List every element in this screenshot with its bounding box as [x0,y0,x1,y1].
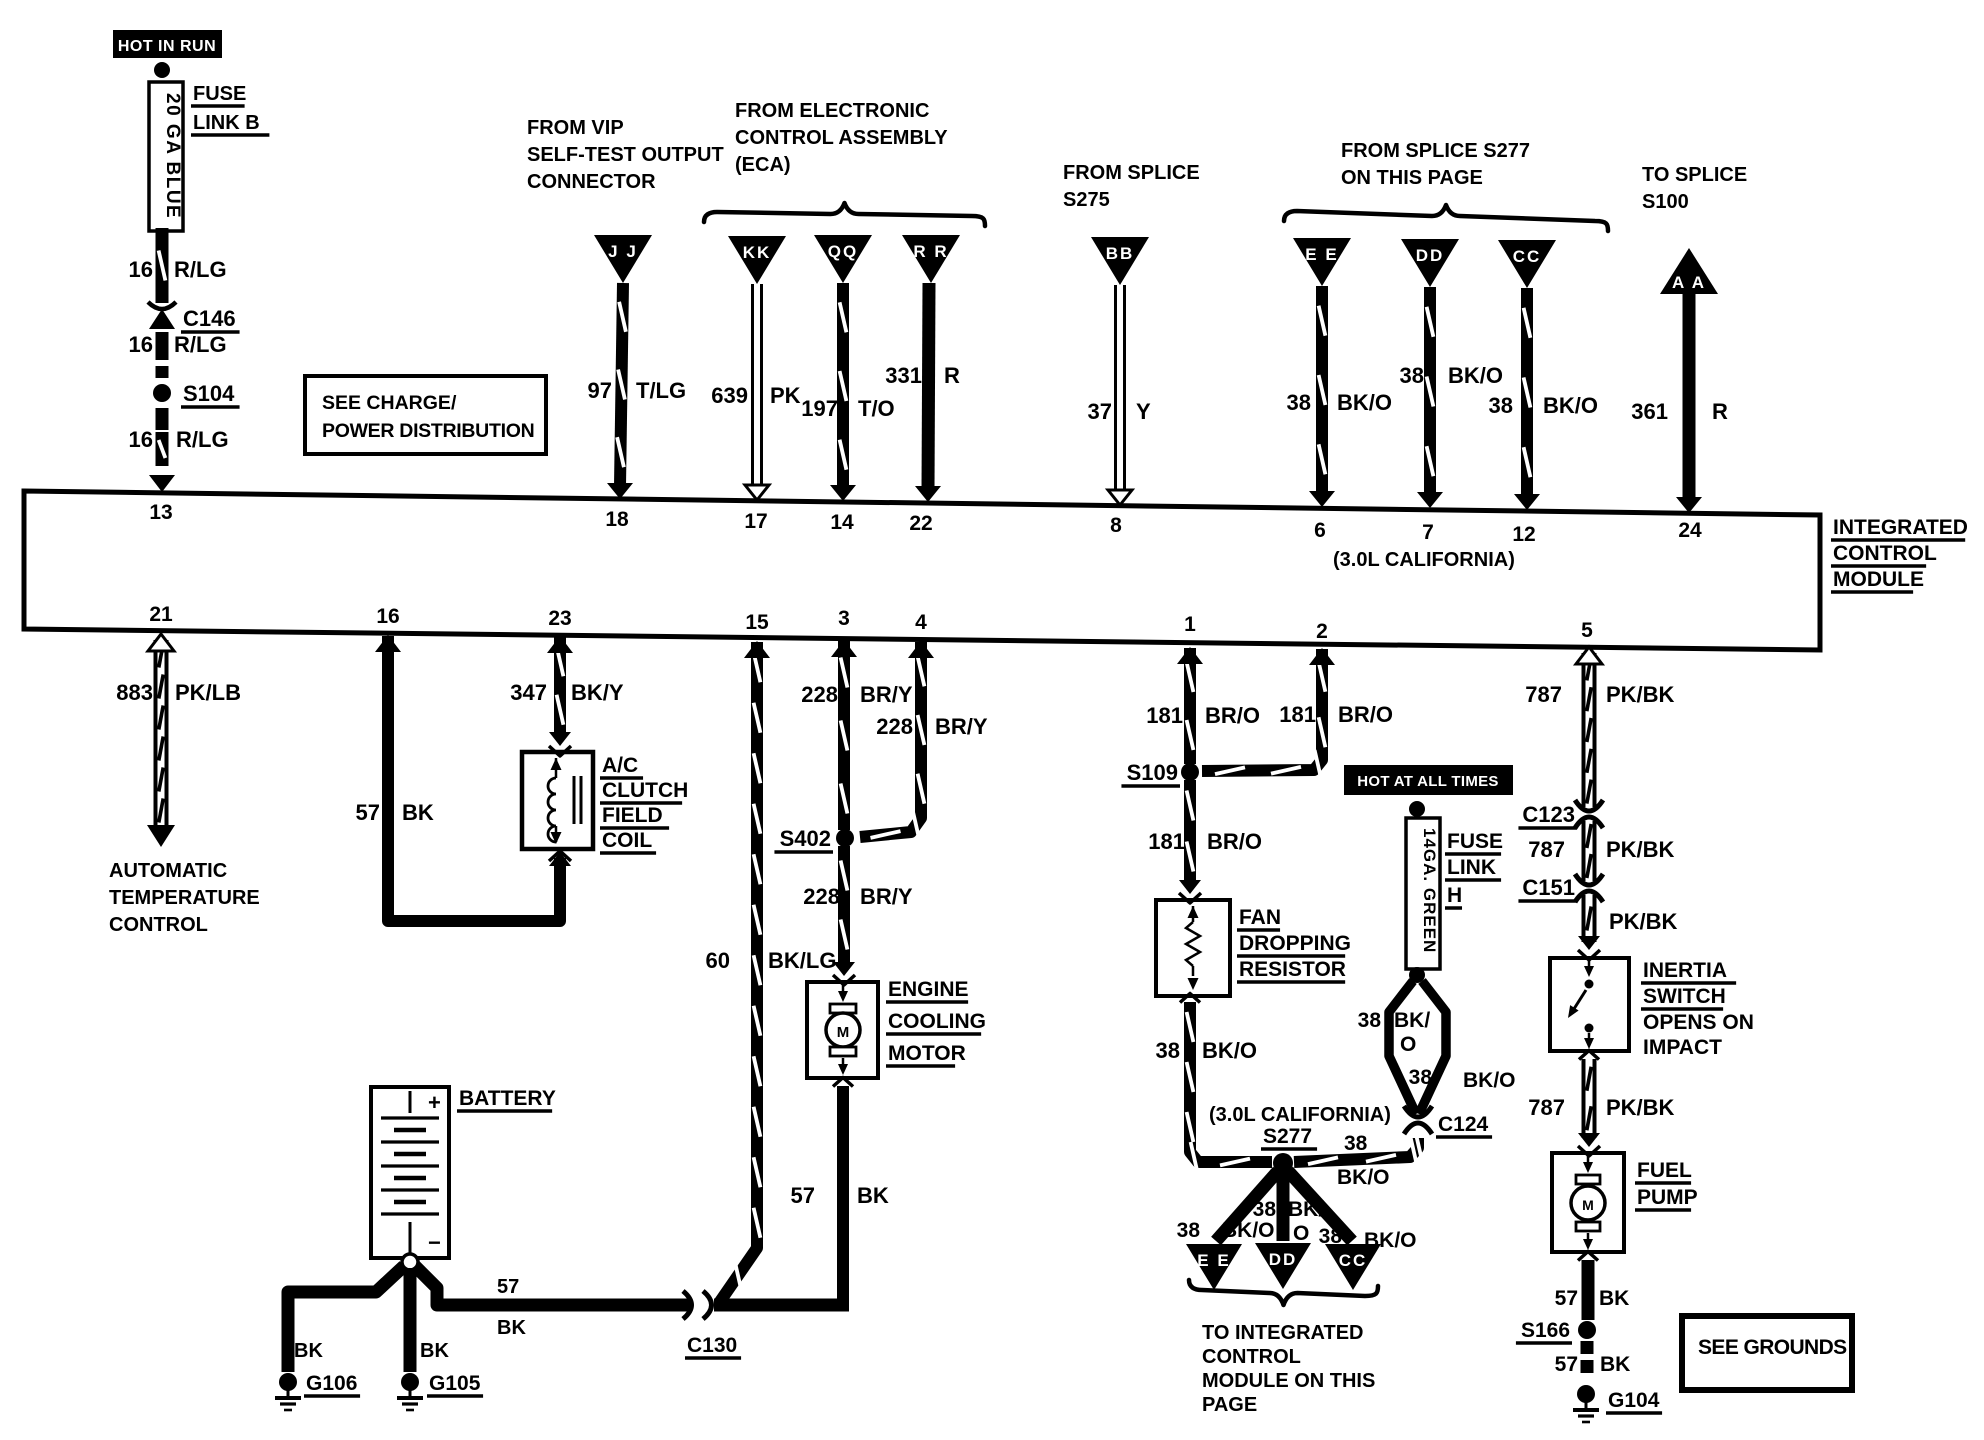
svg-text:16: 16 [129,257,153,282]
svg-text:S104: S104 [183,381,235,406]
connector triangle CC (top) [1498,240,1556,288]
svg-text:POWER DISTRIBUTION: POWER DISTRIBUTION [322,420,534,442]
splice S109 [1181,763,1199,781]
svg-text:S277: S277 [1263,1125,1312,1148]
svg-text:BK/O: BK/O [1543,393,1598,418]
arrow at pin 3 [831,640,857,657]
svg-text:T/LG: T/LG [636,378,686,403]
svg-text:BR/O: BR/O [1205,703,1260,728]
arrow to automatic temperature control [147,825,175,847]
connector triangle DD (top) [1401,239,1459,287]
svg-text:DD: DD [1416,246,1445,265]
svg-text:S100: S100 [1642,191,1689,213]
svg-text:331: 331 [885,363,922,388]
svg-text:PK/BK: PK/BK [1606,837,1675,862]
arrow at pin 17 [745,485,769,500]
svg-text:HOT AT ALL TIMES: HOT AT ALL TIMES [1357,773,1498,790]
splice S277 [1273,1153,1293,1173]
svg-text:FIELD: FIELD [602,804,663,827]
svg-text:787: 787 [1528,1095,1565,1120]
integrated control module box [24,491,1820,650]
svg-text:PAGE: PAGE [1202,1394,1257,1416]
connector triangle BB [1091,237,1149,285]
node: top of fuse link B [154,62,170,78]
svg-text:38: 38 [1253,1198,1277,1221]
svg-text:38: 38 [1156,1038,1180,1063]
svg-text:FROM SPLICE: FROM SPLICE [1063,162,1200,184]
svg-text:57: 57 [356,800,380,825]
svg-text:57: 57 [1555,1287,1578,1310]
arrow at pin 21 (outline) [148,634,174,651]
wire 639 PK from KK to pin 17 (white) [751,284,763,488]
node at fuse link H top [1409,801,1425,817]
svg-text:R/LG: R/LG [174,257,227,282]
svg-text:13: 13 [149,501,172,524]
wire 57 BK from motor to battery junction [833,1078,853,1087]
svg-text:QQ: QQ [828,242,858,261]
node at fuse link H bottom [1409,967,1425,983]
svg-text:PK/LB: PK/LB [175,680,241,705]
box SEE GROUNDS [1682,1316,1852,1390]
svg-text:PK: PK [770,383,801,408]
wire 38 BK/O from DD to pin 7 [1424,287,1436,496]
svg-text:SEE CHARGE/: SEE CHARGE/ [322,392,457,414]
ground G105 [401,1373,419,1391]
inertia switch box [1550,958,1629,1051]
svg-text:TO SPLICE: TO SPLICE [1642,164,1747,186]
svg-text:ENGINE: ENGINE [888,978,969,1001]
wire PK/BK from C151 to inertia switch [1582,895,1597,942]
brace over S277 connectors [1284,205,1608,231]
svg-text:C151: C151 [1522,875,1575,900]
svg-text:BK/O: BK/O [1463,1069,1516,1092]
svg-text:RESISTOR: RESISTOR [1239,958,1346,981]
wire 38 BK/O from resistor to splice S277 [1180,994,1200,1003]
wire 347 BK/Y from pin 23 to A/C clutch field coil [554,637,566,734]
connector triangle DD (bottom) [1255,1243,1311,1289]
svg-text:BK/O: BK/O [1448,363,1503,388]
wire 60 BK/LG from pin 15 to C130 [719,642,757,1303]
wire 57 BK from S166 to G104 (dashed) [1581,1341,1594,1354]
svg-text:S275: S275 [1063,189,1110,211]
arrow into resistor box [1179,880,1201,894]
svg-text:24: 24 [1678,519,1702,542]
arrow into inertia switch [1578,936,1600,950]
svg-text:BATTERY: BATTERY [459,1087,556,1110]
svg-text:BK: BK [420,1340,449,1362]
splice S166 [1578,1321,1596,1339]
arrow at pin 16 [375,635,401,652]
svg-text:R: R [1712,399,1728,424]
arrow at pin 2 [1309,648,1335,665]
svg-text:BB: BB [1106,244,1135,263]
svg-text:ON THIS PAGE: ON THIS PAGE [1341,167,1483,189]
arrow at pin 14 [830,485,856,501]
connector triangle AA (to splice S100) [1660,248,1718,294]
svg-text:E E: E E [1197,1251,1230,1270]
svg-text:BK: BK [497,1317,526,1339]
svg-text:7: 7 [1422,521,1434,544]
svg-text:37: 37 [1088,399,1112,424]
svg-text:C124: C124 [1438,1113,1489,1136]
battery cells symbol [409,1091,412,1113]
wire 57 BK from fuel pump to S166 [1578,1252,1598,1261]
coil inner symbol [551,758,562,770]
svg-text:A A: A A [1672,273,1706,292]
arrow into motor box [833,962,855,976]
connector C123 [1575,800,1603,811]
svg-text:C146: C146 [183,306,236,331]
wire 16 R/LG (fuse to C146) [156,228,169,303]
arrow at pin 8 [1108,490,1132,505]
fuel pump box [1552,1153,1624,1252]
connector C151 [1575,874,1603,885]
wire 16 R/LG (S104 to module pin 13) [156,408,169,430]
svg-text:Y: Y [1136,399,1151,424]
wire 38 BK/O from CC to pin 12 [1521,288,1533,497]
svg-text:21: 21 [149,603,173,626]
svg-text:FUEL: FUEL [1637,1159,1692,1182]
svg-text:S166: S166 [1521,1319,1570,1342]
svg-text:38: 38 [1409,1066,1433,1089]
svg-text:15: 15 [745,611,769,634]
svg-text:DROPPING: DROPPING [1239,932,1351,955]
svg-text:16: 16 [129,332,153,357]
svg-text:(3.0L CALIFORNIA): (3.0L CALIFORNIA) [1209,1104,1391,1126]
engine cooling motor box [807,982,878,1078]
wire 16 R/LG (C146 to S104) [156,332,169,360]
svg-text:O: O [1400,1033,1416,1056]
svg-text:R R: R R [913,242,948,261]
wire 228 BR/Y from pin 4 to splice S402 [860,642,921,837]
svg-text:6: 6 [1314,519,1326,542]
arrow into pin 13 [149,475,175,492]
svg-text:C123: C123 [1522,802,1575,827]
svg-text:38: 38 [1358,1009,1382,1032]
svg-text:38: 38 [1177,1219,1201,1242]
wire 331 R from RR to pin 22 [928,283,929,490]
wire 97 T/LG from JJ to pin 18 [620,283,623,486]
svg-text:57: 57 [791,1183,815,1208]
svg-text:FAN: FAN [1239,906,1281,929]
svg-text:M: M [837,1024,850,1041]
connector triangle CC (bottom) [1325,1244,1381,1290]
svg-text:O: O [1293,1222,1309,1245]
svg-text:C130: C130 [687,1334,737,1357]
ground G104 [1577,1385,1595,1403]
svg-text:347: 347 [510,680,547,705]
svg-text:FUSE: FUSE [1447,830,1503,853]
connector triangle JJ [594,235,652,283]
connector triangle EE (top) [1293,238,1351,286]
svg-text:A/C: A/C [602,754,638,777]
svg-text:CLUTCH: CLUTCH [602,779,688,802]
arrow at pin 4 [908,641,934,658]
wire 181 BR/O from pin 2 to S109 [1202,649,1322,771]
svg-text:IMPACT: IMPACT [1643,1036,1722,1059]
svg-text:5: 5 [1581,619,1593,642]
svg-text:COOLING: COOLING [888,1010,986,1033]
splice S104 [153,384,171,402]
svg-text:60: 60 [706,948,730,973]
svg-text:INTEGRATED: INTEGRATED [1833,516,1968,539]
fuel pump motor symbol [1587,1155,1590,1166]
arrow at pin 24 [1676,497,1702,513]
svg-text:18: 18 [605,508,629,531]
svg-text:181: 181 [1279,702,1316,727]
connector C146 [148,302,176,309]
connector triangle RR [902,235,960,283]
svg-text:BK/LG: BK/LG [768,948,836,973]
svg-text:38: 38 [1489,393,1513,418]
svg-text:OPENS ON: OPENS ON [1643,1011,1754,1034]
svg-text:FUSE: FUSE [193,83,246,105]
wire 38 BK/O from S277 to C124 [1294,1138,1418,1162]
svg-text:INERTIA: INERTIA [1643,959,1727,982]
motor inner symbol [842,984,845,995]
svg-text:3: 3 [838,607,850,630]
svg-text:38: 38 [1400,363,1424,388]
wire 37 Y from BB to pin 8 (white) [1114,285,1126,493]
svg-text:361: 361 [1631,399,1668,424]
svg-text:BK: BK [1600,1353,1630,1376]
svg-text:FROM ELECTRONIC: FROM ELECTRONIC [735,100,929,122]
switch inner symbol [1588,960,1591,968]
arrow at pin 12 [1514,494,1540,510]
svg-text:17: 17 [744,510,767,533]
arrow at pin 6 [1309,491,1335,507]
power label HOT IN RUN [113,30,222,58]
svg-text:BK/O: BK/O [1202,1038,1257,1063]
connector triangle KK [728,236,786,284]
wire 197 T/O from QQ to pin 14 [837,283,849,489]
svg-text:R: R [944,363,960,388]
svg-text:228: 228 [876,714,913,739]
arrow at pin 23 [547,636,573,653]
svg-text:1: 1 [1184,613,1196,636]
svg-text:SEE GROUNDS: SEE GROUNDS [1698,1336,1847,1359]
svg-text:22: 22 [909,512,932,535]
svg-text:BK: BK [294,1340,323,1362]
svg-text:+: + [428,1090,441,1115]
wire 38 BK/O split loop to C124 (right branch) [1419,981,1446,1114]
arrow at pin 18 [607,483,633,499]
svg-text:PUMP: PUMP [1637,1186,1698,1209]
svg-text:M: M [1582,1197,1594,1213]
wire 361 R from pin 24 to AA [1683,294,1696,500]
arrow at coil box bottom [549,852,571,866]
svg-text:20 GA BLUE: 20 GA BLUE [162,93,183,219]
svg-text:H: H [1447,884,1462,907]
wire 228 BR/Y from pin 3 to splice S402 [838,641,850,830]
wire BK battery to G105 [404,1268,417,1372]
svg-text:181: 181 [1148,829,1185,854]
svg-text:8: 8 [1110,514,1122,537]
brace under EE DD CC [1189,1280,1378,1305]
svg-text:−: − [428,1230,441,1255]
wire S277 splice to connector EE below [1216,1171,1278,1241]
svg-text:228: 228 [803,884,840,909]
svg-text:R/LG: R/LG [174,332,227,357]
svg-text:CONTROL: CONTROL [1202,1346,1301,1368]
A/C clutch field coil box [522,752,593,849]
svg-text:BK/O: BK/O [1337,1166,1390,1189]
svg-text:DD: DD [1269,1250,1298,1269]
svg-text:TO INTEGRATED: TO INTEGRATED [1202,1322,1363,1344]
wire 57 BK from pin 16 to A/C clutch field coil [388,636,560,921]
svg-text:38: 38 [1344,1132,1368,1155]
svg-text:16: 16 [376,605,399,628]
svg-text:COIL: COIL [602,829,652,852]
svg-text:181: 181 [1146,703,1183,728]
svg-text:MODULE ON THIS: MODULE ON THIS [1202,1370,1375,1392]
svg-text:AUTOMATIC: AUTOMATIC [109,860,227,882]
wire 181 BR/O from pin 1 to S109 [1184,648,1196,764]
svg-text:CC: CC [1339,1251,1368,1270]
power label HOT AT ALL TIMES [1344,765,1513,795]
svg-text:CC: CC [1513,247,1542,266]
wire 38 BK/O split loop to C124 (left branch) [1389,981,1416,1114]
svg-text:38: 38 [1287,390,1311,415]
wire 787 PK/BK from inertia switch to fuel pump [1579,1051,1599,1060]
svg-text:LINK B: LINK B [193,112,260,134]
svg-text:BK: BK [857,1183,889,1208]
svg-text:787: 787 [1525,682,1562,707]
svg-text:57: 57 [1555,1353,1578,1376]
svg-text:BR/Y: BR/Y [935,714,988,739]
svg-text:14: 14 [830,511,854,534]
svg-text:787: 787 [1528,837,1565,862]
svg-text:FROM VIP: FROM VIP [527,117,624,139]
wire S277 splice to connector DD below [1277,1172,1290,1241]
svg-text:CONNECTOR: CONNECTOR [527,171,656,193]
fuse link B (20 GA BLUE) [149,82,183,231]
connector C130 [683,1291,692,1319]
svg-text:G106: G106 [306,1372,357,1395]
svg-text:PK/BK: PK/BK [1606,682,1675,707]
svg-text:BK: BK [402,800,434,825]
svg-text:J J: J J [608,242,638,261]
svg-text:(3.0L CALIFORNIA): (3.0L CALIFORNIA) [1333,549,1515,571]
wire 38 BK/O from EE to pin 6 [1316,286,1328,494]
wire 57 BK battery to C130 [415,1266,690,1305]
svg-text:883: 883 [116,680,153,705]
svg-text:PK/BK: PK/BK [1609,909,1678,934]
svg-text:197: 197 [801,396,838,421]
svg-text:TEMPERATURE: TEMPERATURE [109,887,260,909]
connector triangle EE (bottom) [1186,1244,1242,1290]
svg-text:R/LG: R/LG [176,427,229,452]
svg-text:BK/O: BK/O [1337,390,1392,415]
svg-text:S109: S109 [1127,760,1178,785]
svg-text:12: 12 [1512,523,1535,546]
svg-text:G105: G105 [429,1372,481,1395]
arrow at pin 5 (outline) [1576,647,1602,664]
svg-text:BR/Y: BR/Y [860,884,913,909]
resistor inner symbol [1188,906,1199,918]
arrow at pin 22 [915,486,941,502]
svg-text:E E: E E [1305,245,1338,264]
svg-text:FROM SPLICE S277: FROM SPLICE S277 [1341,140,1530,162]
svg-text:BK/O: BK/O [1222,1219,1275,1242]
splice S402 [836,829,854,847]
brace over ECA connectors [704,203,985,226]
svg-text:BK/Y: BK/Y [571,680,624,705]
fuse link H (14GA. GREEN) [1406,818,1440,969]
svg-text:BR/Y: BR/Y [860,682,913,707]
svg-text:BR/O: BR/O [1338,702,1393,727]
svg-text:CONTROL: CONTROL [109,914,208,936]
svg-text:KK: KK [743,243,772,262]
connector triangle QQ [814,235,872,283]
svg-text:97: 97 [588,378,612,403]
svg-text:BK: BK [1599,1287,1629,1310]
svg-text:14GA. GREEN: 14GA. GREEN [1420,828,1439,953]
svg-text:LINK: LINK [1447,856,1496,879]
svg-text:SELF-TEST OUTPUT: SELF-TEST OUTPUT [527,144,724,166]
svg-text:BK/: BK/ [1394,1009,1430,1032]
svg-text:(ECA): (ECA) [735,154,791,176]
wire 181 BR/O from S109 to fan dropping resistor [1184,780,1196,882]
wire BK battery to G106 [288,1266,404,1372]
wire S277 splice to connector CC below [1288,1171,1352,1241]
svg-text:228: 228 [801,682,838,707]
svg-text:T/O: T/O [858,396,895,421]
svg-text:CONTROL: CONTROL [1833,542,1937,565]
arrow into coil box [549,732,571,746]
svg-text:G104: G104 [1608,1389,1660,1412]
wire 883 PK/LB from pin 21 to ATC [154,640,169,826]
svg-text:SWITCH: SWITCH [1643,985,1726,1008]
battery ground junction node [402,1254,418,1270]
connector C124 [1404,1106,1432,1117]
wire 228 BR/Y from S402 to engine cooling motor [838,846,850,964]
svg-text:PK/BK: PK/BK [1606,1095,1675,1120]
arrow into fuel pump [1578,1133,1600,1147]
wire 57 BK C130 to motor branch [714,1299,849,1312]
box SEE CHARGE / POWER DISTRIBUTION [305,376,546,454]
svg-text:639: 639 [711,383,748,408]
battery box [371,1087,449,1258]
ground G106 [279,1373,297,1391]
svg-text:16: 16 [129,427,153,452]
svg-text:MOTOR: MOTOR [888,1042,966,1065]
arrow at pin 15 [744,641,770,658]
svg-text:57: 57 [497,1276,519,1298]
wire 787 PK/BK from C123 to C151 [1582,821,1597,881]
wire 787 PK/BK from pin 5 to C123 [1582,653,1597,807]
arrow at pin 1 [1177,647,1203,664]
arrow at pin 7 [1417,492,1443,508]
svg-text:CONTROL ASSEMBLY: CONTROL ASSEMBLY [735,127,948,149]
svg-text:MODULE: MODULE [1833,568,1924,591]
svg-text:HOT IN RUN: HOT IN RUN [118,38,216,55]
svg-text:BK/: BK/ [1288,1198,1324,1221]
svg-text:23: 23 [548,607,571,630]
svg-text:2: 2 [1316,620,1328,643]
svg-text:4: 4 [915,611,927,634]
svg-text:BR/O: BR/O [1207,829,1262,854]
fan dropping resistor box [1156,900,1230,996]
svg-text:S402: S402 [780,826,831,851]
